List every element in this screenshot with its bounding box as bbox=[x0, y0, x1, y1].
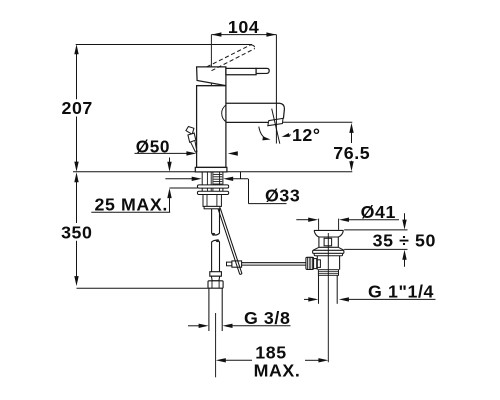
svg-text:G 3/8: G 3/8 bbox=[244, 308, 291, 328]
svg-text:207: 207 bbox=[61, 98, 92, 118]
svg-text:MAX.: MAX. bbox=[254, 361, 301, 381]
svg-text:Ø33: Ø33 bbox=[265, 185, 300, 205]
svg-text:G 1"1/4: G 1"1/4 bbox=[368, 282, 434, 302]
svg-text:350: 350 bbox=[61, 222, 92, 242]
svg-text:25 MAX.: 25 MAX. bbox=[95, 194, 168, 214]
svg-text:35 ÷ 50: 35 ÷ 50 bbox=[373, 231, 436, 251]
svg-text:Ø41: Ø41 bbox=[361, 202, 396, 222]
svg-text:76.5: 76.5 bbox=[333, 143, 370, 163]
svg-text:185: 185 bbox=[255, 343, 286, 363]
svg-text:12°: 12° bbox=[292, 125, 321, 145]
svg-text:104: 104 bbox=[228, 17, 259, 37]
